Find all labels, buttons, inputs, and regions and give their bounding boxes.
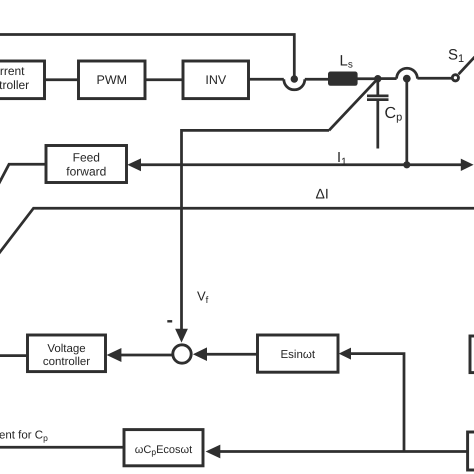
svg-text:Voltage: Voltage — [47, 343, 85, 355]
capacitor Cp plates — [367, 95, 389, 98]
svg-text:forward: forward — [66, 165, 106, 179]
svg-text:INV: INV — [205, 73, 227, 87]
svg-text:Ls: Ls — [340, 53, 353, 71]
wire: delta I line with diagonal to left edge — [0, 208, 474, 254]
wire: sensor node C down to I1 line — [405, 80, 408, 164]
arrowhead: into Esinwt — [339, 348, 351, 360]
wire: PWM to INV — [145, 78, 183, 81]
wire: bottom feedback line — [220, 450, 469, 453]
wire: I1 line — [141, 163, 462, 166]
wire: Esinwt output to summing junction — [207, 353, 258, 356]
Esinwt block — [258, 335, 339, 372]
svg-text:ΔI: ΔI — [316, 186, 329, 202]
svg-text:controller: controller — [43, 356, 90, 368]
wire: Vf horizontal and vertical down to summing junction — [182, 130, 330, 329]
node E dot on I1 line — [403, 161, 410, 168]
wire: feed forward output zigzag to left edge — [0, 164, 46, 189]
svg-text:S1: S1 — [448, 47, 464, 66]
svg-text:Esinωt: Esinωt — [281, 349, 316, 361]
wire: INV output to hop — [249, 78, 284, 81]
wire: summing junction to voltage controller — [121, 354, 173, 357]
wire: wCpEcoswt output to left edge — [0, 446, 124, 449]
wire: top feedback line from left edge to INV output node — [0, 35, 294, 77]
clipped block at bottom right edge — [468, 432, 474, 470]
current controller block (clipped at left edge) — [0, 61, 45, 99]
arrowhead: into wCpEcoswt — [206, 445, 221, 459]
arrowhead: I1 into feed forward — [127, 158, 141, 171]
wire: Ls to node B — [358, 77, 376, 80]
svg-text:Cp: Cp — [385, 105, 403, 124]
inductor Ls body — [328, 72, 358, 86]
wire: hop to switch S1 — [417, 77, 451, 80]
clipped block at top right edge — [470, 336, 474, 373]
capacitor Cp bottom lead — [376, 101, 379, 149]
node A dot at INV output — [291, 75, 298, 82]
capacitor Cp top lead — [376, 80, 379, 95]
voltage controller block — [28, 335, 106, 372]
svg-text:ωCpEcosωt: ωCpEcosωt — [135, 444, 192, 457]
wire: hop under node A — [284, 79, 305, 90]
arrowhead: into summing junction from Esinwt — [193, 347, 207, 361]
node B dot at Cp top — [374, 75, 381, 82]
wCpEcoswt block — [124, 430, 203, 466]
switch S1 lever — [459, 57, 474, 74]
svg-text:Current: Current — [0, 64, 25, 78]
PWM block — [79, 61, 146, 99]
svg-text:PWM: PWM — [97, 73, 128, 87]
svg-text:ent for Cp: ent for Cp — [0, 430, 48, 444]
node C dot under hop — [403, 75, 411, 83]
wire: node B to hop over node C — [381, 77, 397, 80]
svg-text:I1: I1 — [337, 150, 347, 168]
wire: voltage controller output to left edge — [0, 354, 28, 357]
arrowhead: Vf into summing junction — [175, 329, 188, 343]
label minus sign at summing junction — [167, 320, 172, 322]
svg-text:controller: controller — [0, 78, 29, 92]
arrowhead: into voltage controller — [107, 348, 122, 362]
wire: right net to Esinwt input — [351, 354, 405, 452]
wire: CC to PWM — [45, 78, 79, 81]
svg-text:Feed: Feed — [73, 151, 100, 165]
arrowhead: I1 to right edge — [461, 159, 474, 171]
INV block — [183, 61, 249, 99]
summing junction circle — [173, 345, 191, 363]
svg-text:Vf: Vf — [197, 289, 209, 307]
feed forward block — [46, 146, 127, 183]
switch S1 open contact circle — [452, 75, 458, 81]
wire: hop over node C — [397, 68, 418, 78]
wire: hop to inductor Ls — [305, 78, 328, 81]
wire: node B diagonal down to Vf tap — [329, 79, 378, 131]
